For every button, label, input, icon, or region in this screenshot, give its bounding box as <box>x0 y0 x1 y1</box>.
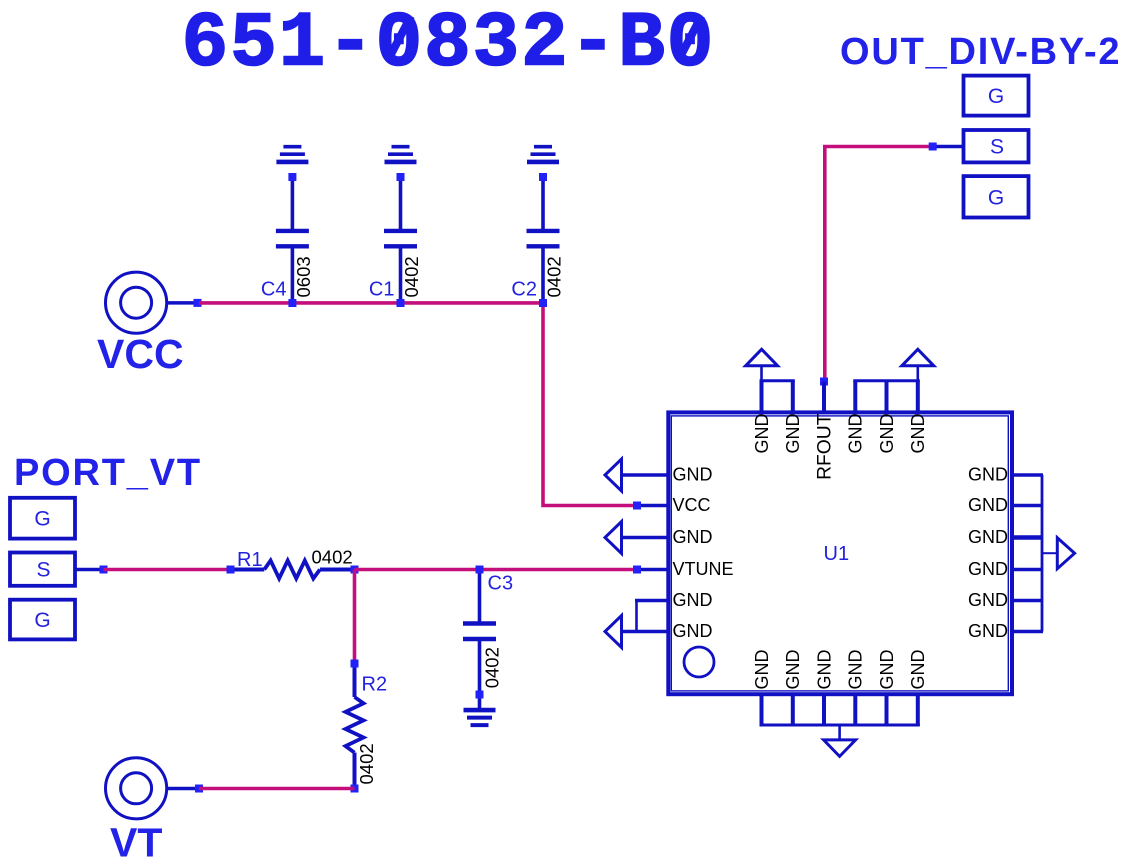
ground flag bottom <box>824 740 856 757</box>
off-page flag top right <box>902 349 934 366</box>
off-page flag left 6 <box>605 616 622 648</box>
bracket top pins 4-6 <box>853 379 920 382</box>
svg-text:GND: GND <box>877 414 897 454</box>
svg-text:GND: GND <box>968 527 1008 547</box>
junction R1 right <box>351 566 359 574</box>
junction at VCC port <box>194 299 202 307</box>
junction at VT port <box>195 785 203 793</box>
junction C4 at bus <box>288 299 296 307</box>
svg-text:GND: GND <box>673 527 713 547</box>
title 651-0832-B0 <box>182 1 716 89</box>
junction C2 at bus corner <box>539 299 547 307</box>
wire to top flag right <box>916 366 919 381</box>
svg-text:GND: GND <box>814 650 834 690</box>
wire VT net (magenta) <box>199 787 355 791</box>
ground above C4 <box>276 147 308 181</box>
op-amp/IC U1 outline <box>668 412 1012 694</box>
wire bracket to flag <box>1042 552 1057 554</box>
bracket right pins <box>1041 475 1044 632</box>
port VT <box>106 758 199 864</box>
off-page flag left 1 <box>605 459 622 491</box>
svg-text:PORT_VT: PORT_VT <box>14 452 202 494</box>
capacitor C2 <box>527 181 560 303</box>
off-page flag right <box>1057 538 1074 569</box>
wire to ground flag <box>838 725 841 740</box>
bracket bottom pins <box>760 724 920 727</box>
svg-text:VCC: VCC <box>97 331 184 377</box>
svg-text:U1: U1 <box>824 543 850 565</box>
svg-text:G: G <box>988 85 1004 108</box>
svg-text:R2: R2 <box>362 673 388 695</box>
ground above C1 <box>385 147 417 181</box>
svg-text:GND: GND <box>908 650 928 690</box>
svg-text:0402: 0402 <box>401 256 422 297</box>
svg-text:GND: GND <box>968 590 1008 610</box>
svg-text:GND: GND <box>673 590 713 610</box>
pin GND left 6 stub <box>622 630 669 634</box>
junction at VCC pin of U1 <box>633 502 641 510</box>
wire R2 drop (magenta) <box>353 570 357 664</box>
port OUT_DIV-BY-2 pad G (top) <box>964 76 1029 116</box>
junction R2 bottom <box>351 785 359 793</box>
pin GND left 5 stub <box>635 599 668 603</box>
top pin stubs <box>762 381 918 415</box>
port PORT_VT pad G (bottom) <box>10 600 75 640</box>
off-page flag left 3 <box>605 522 622 554</box>
wire RFOUT net (magenta) <box>825 147 933 382</box>
svg-text:G: G <box>34 508 50 531</box>
svg-text:GND: GND <box>877 650 897 690</box>
svg-text:651-0832-B0: 651-0832-B0 <box>182 1 716 89</box>
svg-text:GND: GND <box>968 621 1008 641</box>
svg-text:VTUNE: VTUNE <box>673 559 734 579</box>
bracket pins 5-6 <box>635 599 638 631</box>
svg-text:VT: VT <box>110 820 162 864</box>
svg-text:0402: 0402 <box>356 743 377 784</box>
port PORT_VT pad S <box>10 553 75 586</box>
resistor R2 <box>346 664 364 789</box>
pin labels GND right x6 <box>968 464 1008 641</box>
junction at VTUNE pin of U1 <box>633 566 641 574</box>
svg-text:GND: GND <box>846 414 866 454</box>
junction C1 at bus <box>397 299 405 307</box>
port VCC <box>97 272 199 377</box>
svg-text:GND: GND <box>783 414 803 454</box>
junction C3 at ground <box>476 691 484 699</box>
resistor R1 <box>231 561 355 579</box>
junction at RFOUT pin <box>820 378 828 386</box>
svg-text:GND: GND <box>968 495 1008 515</box>
svg-text:G: G <box>988 186 1004 209</box>
port OUT_DIV-BY-2 pad S <box>964 130 1029 162</box>
svg-text:0402: 0402 <box>482 647 503 688</box>
pin labels top (rotated) <box>752 413 928 480</box>
svg-text:C4: C4 <box>261 279 287 301</box>
wire to top flag left <box>760 366 763 381</box>
pin VTUNE stub <box>641 568 668 572</box>
svg-text:VCC: VCC <box>673 495 711 515</box>
wire VCC bus (magenta) <box>199 303 634 506</box>
svg-text:R1: R1 <box>237 549 263 571</box>
junction R2 top <box>351 660 359 668</box>
capacitor C1 <box>384 181 417 303</box>
svg-text:G: G <box>34 609 50 632</box>
wire S pad to R1 <box>75 568 104 572</box>
svg-text:S: S <box>990 136 1004 159</box>
capacitor C4 <box>276 181 309 303</box>
junction R1 left <box>227 566 235 574</box>
svg-text:GND: GND <box>673 621 713 641</box>
svg-text:GND: GND <box>673 464 713 484</box>
svg-text:GND: GND <box>783 650 803 690</box>
svg-text:GND: GND <box>968 559 1008 579</box>
svg-text:C3: C3 <box>488 573 514 595</box>
svg-text:RFOUT: RFOUT <box>815 413 836 480</box>
port PORT_VT pad G (top) <box>10 498 75 539</box>
off-page flag top left <box>746 349 778 366</box>
right pin stubs GND x6 <box>1012 475 1043 632</box>
wire S pad to net RFOUT <box>931 145 964 149</box>
ground below C3 <box>464 710 496 725</box>
svg-text:GND: GND <box>968 464 1008 484</box>
svg-text:GND: GND <box>846 650 866 690</box>
ground above C2 <box>527 147 559 181</box>
bottom pin stubs <box>762 694 918 726</box>
svg-text:GND: GND <box>752 650 772 690</box>
svg-text:0402: 0402 <box>312 547 353 568</box>
junction at S pad <box>100 566 108 574</box>
capacitor C3 <box>463 570 496 711</box>
bracket top pins 1-2 <box>760 379 795 382</box>
svg-text:0402: 0402 <box>544 256 565 297</box>
pin VCC stub <box>641 504 668 508</box>
junction at S pad <box>929 143 937 151</box>
pin GND left 1 stub <box>622 473 669 477</box>
svg-text:S: S <box>36 559 50 582</box>
pin-1 indicator circle <box>684 647 714 677</box>
svg-text:OUT_DIV-BY-2: OUT_DIV-BY-2 <box>840 31 1121 73</box>
svg-text:GND: GND <box>908 414 928 454</box>
junction C3 at net <box>476 566 484 574</box>
pin GND left 3 stub <box>622 536 669 540</box>
svg-text:C1: C1 <box>369 279 395 301</box>
port OUT_DIV-BY-2 pad G (bottom) <box>964 176 1029 217</box>
wire PORT_VT net (magenta) <box>104 568 231 572</box>
svg-text:0603: 0603 <box>293 256 314 297</box>
svg-text:C2: C2 <box>511 279 537 301</box>
svg-text:GND: GND <box>752 414 772 454</box>
pin labels bottom (rotated) <box>752 650 928 690</box>
wire VTUNE net (magenta) <box>355 568 635 572</box>
